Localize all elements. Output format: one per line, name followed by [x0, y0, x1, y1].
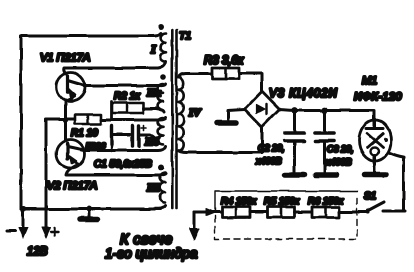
dashed enclosure for R4-R6 — [215, 191, 357, 212]
svg-text:IIб: IIб — [144, 136, 160, 148]
winding IV — [179, 77, 184, 150]
svg-text:Т1: Т1 — [179, 30, 191, 42]
wire: R6 to S1 — [339, 211, 368, 214]
svg-text:1-го цилиндра: 1-го цилиндра — [105, 246, 198, 261]
label: minus sign — [7, 230, 15, 233]
svg-text:S1: S1 — [364, 191, 376, 202]
transistor V1 П217А — [56, 73, 85, 102]
resistor R2 1к — [110, 102, 113, 120]
node: minus rail junction — [20, 206, 26, 212]
resistor R1 10 (пров) — [75, 115, 101, 125]
node: arrow into divider — [206, 209, 216, 217]
wire: V1 collector to winding IIa top — [84, 84, 166, 86]
wire: chain rail left — [194, 211, 222, 214]
wire: winding IV bottom rail to bridge bottom — [179, 128, 263, 153]
svg-text:С2 20,: С2 20, — [258, 143, 285, 153]
node: phase dot winding IIa — [161, 74, 167, 80]
switch S1 — [368, 202, 384, 211]
node: C2 junction — [291, 107, 297, 113]
svg-text:С1 50,0х25В: С1 50,0х25В — [94, 159, 152, 170]
svg-text:М1: М1 — [362, 75, 377, 87]
transformer T1 core — [171, 30, 174, 208]
wire: R2 right to winding IIa bottom — [143, 109, 164, 113]
svg-text:III: III — [146, 182, 161, 194]
wire: V2 collector to winding IIb bottom — [84, 147, 166, 151]
svg-text:R5 150к: R5 150к — [264, 196, 300, 207]
node: phase dot winding III — [158, 164, 164, 170]
winding IIa — [158, 84, 163, 110]
wire: spark plug node with down arrow — [193, 212, 196, 228]
svg-text:R3 3,6к: R3 3,6к — [204, 55, 244, 67]
svg-text:V3 КЦ402И: V3 КЦ402И — [269, 88, 338, 100]
svg-text:I: I — [150, 42, 157, 56]
svg-text:R6 150к: R6 150к — [308, 196, 344, 207]
wire: minus lead with arrow — [22, 209, 25, 227]
wire: winding III bottom to bus — [154, 206, 166, 209]
svg-text:С3 20,: С3 20, — [327, 144, 354, 154]
svg-text:12В: 12В — [27, 246, 48, 258]
svg-text:V2 П217А: V2 П217А — [47, 180, 97, 192]
svg-text:R2 1к: R2 1к — [114, 91, 141, 102]
svg-text:пров: пров — [86, 140, 106, 150]
resistor R4 150к — [222, 207, 250, 218]
svg-text:R4 150к: R4 150к — [221, 196, 257, 207]
svg-text:IIа: IIа — [146, 87, 162, 99]
wire: V1 base to winding I bottom — [64, 61, 166, 74]
wire: R5-R6 — [294, 211, 312, 214]
ground near bridge — [228, 110, 245, 120]
resistor R6 150к — [312, 207, 339, 218]
flash lamp M1 ИФК-120 — [359, 120, 391, 161]
transistor V2 П217А — [57, 140, 85, 168]
capacitor C2 20,0х400В — [293, 110, 296, 131]
rectifier bridge V3 КЦ402И — [245, 91, 280, 127]
capacitor C3 20,0х400В — [323, 110, 326, 131]
node: phase dot winding I — [158, 24, 164, 30]
wire: R1 right to winding IIb top — [101, 118, 166, 121]
winding IIb — [158, 118, 163, 144]
svg-text:R1 10: R1 10 — [71, 128, 98, 139]
ground main — [86, 206, 92, 212]
wire: R3 right to bridge top — [239, 74, 262, 91]
wire: R4-R5 — [250, 211, 267, 214]
svg-text:IV: IV — [188, 107, 202, 119]
wire: plus rail (R1 left) down across bus — [46, 119, 75, 227]
svg-text:V1 П217А: V1 П217А — [40, 52, 90, 64]
wire: V2 emitter to winding III top — [66, 165, 166, 176]
svg-text:х400В: х400В — [255, 156, 282, 166]
wire: V1 emitter down to V2 base — [64, 101, 67, 141]
resistor R3 3,6к — [212, 68, 239, 79]
wire: left frame edge — [20, 36, 23, 209]
wire: lamp trigger to S1 — [390, 153, 404, 211]
wire: bottom ground bus — [21, 208, 160, 211]
node: base-R1 junction — [63, 117, 68, 122]
winding I — [161, 33, 166, 61]
label: plus sign — [51, 228, 59, 236]
svg-text:х400В: х400В — [325, 157, 352, 167]
winding III — [160, 173, 165, 203]
resistor R5 150к — [267, 207, 294, 218]
wire: DC bus from bridge to lamp — [280, 110, 375, 120]
wire: top rail from left frame to winding I top — [21, 33, 161, 36]
node: C3 junction — [321, 107, 327, 113]
svg-text:ИФК-120: ИФК-120 — [354, 91, 402, 103]
wire: winding IV top to R3 — [179, 74, 213, 78]
capacitor C1 50,0х25В — [110, 126, 113, 144]
